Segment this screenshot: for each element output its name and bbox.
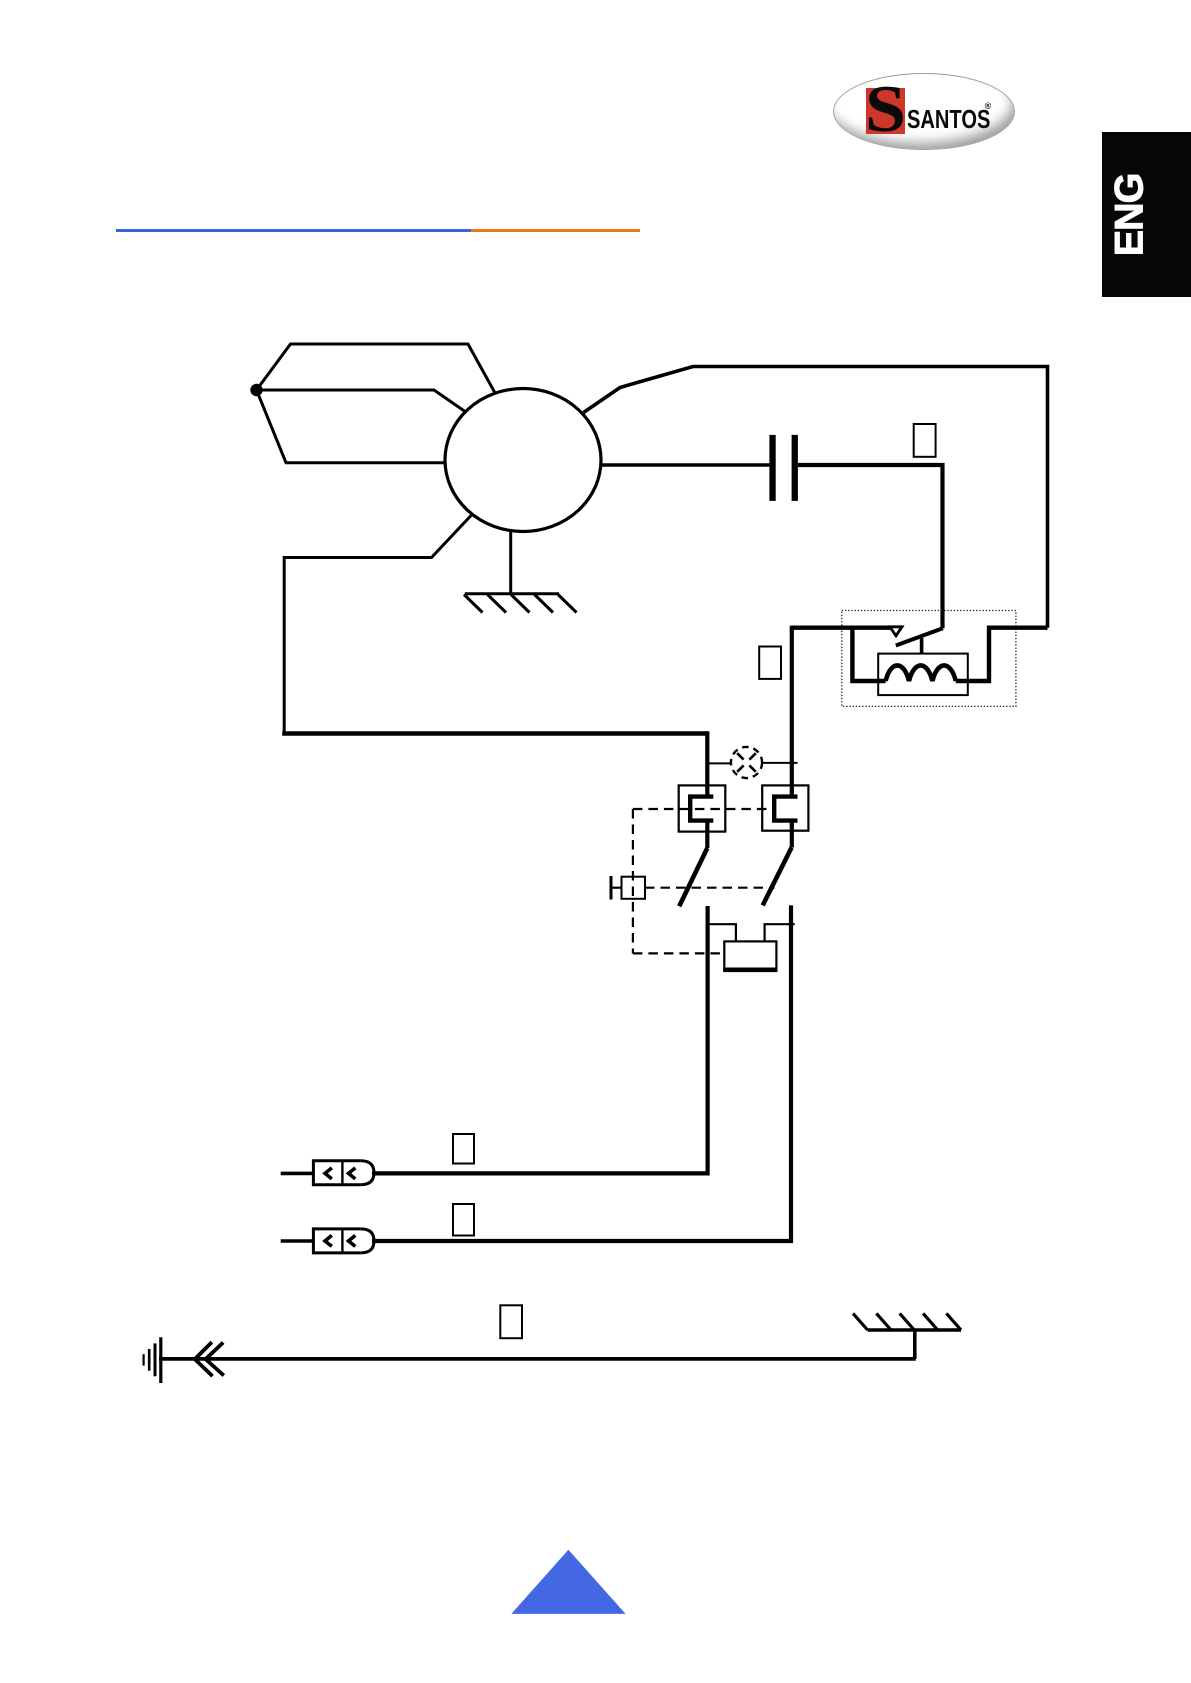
solenoid bottom thick [723, 967, 777, 972]
motor M1 [445, 389, 601, 532]
left rail lower to connector J1 [372, 906, 708, 1173]
connector J1 body [313, 1161, 374, 1185]
title underline orange [471, 229, 640, 232]
microswitch terminal bar [610, 876, 613, 900]
solenoid box [724, 941, 776, 970]
solenoid lead left [709, 924, 736, 941]
label box J2 [453, 1204, 474, 1236]
wire J1 pigtail [281, 1172, 314, 1176]
chassis ground bar [868, 1328, 961, 1331]
title underline blue [116, 229, 471, 232]
switch blade right [763, 848, 792, 906]
dashed link top [633, 808, 774, 810]
heater element box [878, 654, 968, 696]
indicator lamp L1 [731, 747, 762, 778]
solenoid lead right [765, 924, 795, 941]
right rail below bracket [790, 821, 794, 848]
ground motor [464, 532, 577, 613]
relay feed wire [792, 626, 898, 630]
dashed link microswitch [645, 887, 775, 889]
wire winding bottom [257, 390, 448, 463]
wire winding top loop [257, 344, 495, 392]
chassis ground hatches [853, 1313, 961, 1330]
connector J2 body [313, 1229, 374, 1253]
capacitor C1 [769, 435, 797, 501]
relay box dotted [842, 611, 1016, 707]
wire motor right to capacitor [601, 463, 769, 466]
relay right link [956, 628, 1048, 681]
wire J2 pigtail [281, 1239, 314, 1243]
left rail below bracket [705, 821, 709, 848]
double chevron connector [195, 1342, 224, 1376]
connector bracket left [690, 797, 713, 821]
connector square left [679, 785, 726, 831]
dashed link bottom [633, 952, 724, 954]
nav triangle [511, 1550, 625, 1614]
ENG language tab [1102, 132, 1191, 297]
label box relay [759, 647, 781, 679]
SANTOS logo [833, 73, 1015, 150]
wire motor bottom-left to left rail [284, 515, 471, 734]
heater coil R1 [886, 665, 956, 681]
switch blade left [679, 848, 707, 906]
relay inner tap [852, 626, 885, 682]
wire winding middle [257, 390, 467, 413]
relay blade pivot [920, 638, 924, 654]
node N1 junction dot [250, 384, 262, 396]
connector bracket right [774, 797, 797, 821]
label box earth [500, 1305, 522, 1338]
microswitch box [622, 877, 646, 899]
right rail lower to connector J2 [372, 905, 791, 1241]
wire lamp right [762, 762, 798, 764]
relay fixed contact arrow [890, 627, 902, 636]
label box J1 [453, 1134, 474, 1164]
left rail upper segment [705, 731, 709, 797]
dashed link vertical [632, 809, 634, 953]
earth bonding line [159, 1357, 916, 1361]
chassis ground right riser [913, 1329, 917, 1359]
connector square right [762, 785, 808, 830]
wire lower feed to switch rail [282, 731, 707, 736]
wire lamp left [707, 762, 731, 764]
wire motor top-right to supply line [584, 367, 1048, 628]
label box capacitor [914, 424, 936, 457]
right rail upper from relay [790, 626, 794, 797]
microswitch tick [611, 887, 622, 889]
wire capacitor to relay contact [798, 465, 943, 628]
relay switch blade [896, 628, 943, 645]
earth terminal left [144, 1337, 161, 1383]
